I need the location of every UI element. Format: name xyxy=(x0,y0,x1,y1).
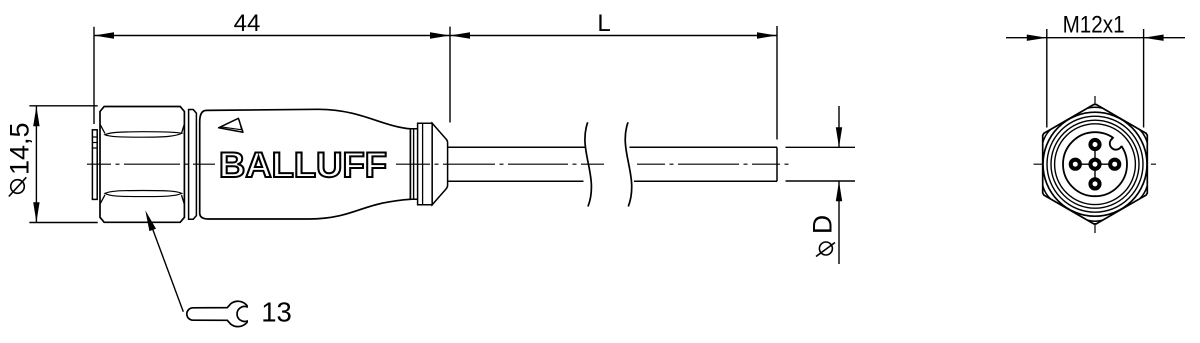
dimension line 44 xyxy=(94,35,450,37)
thread sleeve (front stud) xyxy=(92,130,97,200)
centerline of connector axis (right segment) xyxy=(396,163,604,165)
dimension line L xyxy=(450,35,777,37)
cable break curve 2 xyxy=(625,122,632,206)
dim label dia D (rotated) xyxy=(819,242,832,255)
hex nut side view outline xyxy=(100,107,184,223)
dia 14,5 dimension line xyxy=(35,106,37,222)
dia 14,5 bottom extension line xyxy=(29,222,97,224)
svg-text:BALLUFF: BALLUFF xyxy=(219,146,387,185)
face circle r32 xyxy=(1063,132,1127,196)
thread ticks xyxy=(92,136,97,138)
svg-text:14,5: 14,5 xyxy=(5,122,35,175)
circle r44 xyxy=(1051,120,1139,208)
leader line to wrench xyxy=(150,222,183,312)
extension line left (x=94) xyxy=(93,27,95,124)
hex nut front hexagon xyxy=(1043,105,1148,224)
key notch white fill xyxy=(1110,137,1122,149)
svg-text:D: D xyxy=(808,215,838,234)
body (molded grip) xyxy=(200,109,411,219)
dia 14,5 top extension line xyxy=(29,105,97,107)
circle r40.4 xyxy=(1055,124,1136,205)
cable break curve 1 xyxy=(585,122,592,206)
pin bottom xyxy=(1090,179,1099,188)
pin center xyxy=(1090,160,1099,169)
extension line right (x=777) xyxy=(776,26,778,140)
svg-text:L: L xyxy=(597,10,610,37)
cable top line xyxy=(448,146,777,148)
svg-text:M12x1: M12x1 xyxy=(1063,12,1125,39)
nut front chamfer diagonals xyxy=(100,125,105,134)
face horizontal centerline xyxy=(1034,163,1158,165)
pin top xyxy=(1090,140,1099,149)
M12 extension line left xyxy=(1046,29,1048,128)
dia D bottom extension line xyxy=(786,180,856,182)
cable end xyxy=(776,147,778,181)
strain relief neck outline xyxy=(409,129,418,200)
pin cross vertical xyxy=(1094,140,1096,189)
nut rear chamfer diagonals xyxy=(182,125,185,134)
M12 dimension line xyxy=(1006,37,1185,39)
pin cross horizontal xyxy=(1070,163,1119,165)
hex facet lower lens xyxy=(105,191,182,197)
dia D top extension line xyxy=(786,146,856,148)
cable bottom line xyxy=(448,180,777,182)
strain relief ridge lines xyxy=(413,129,415,200)
face vertical centerline xyxy=(1094,96,1096,233)
M12 extension line right xyxy=(1143,29,1145,128)
svg-text:44: 44 xyxy=(234,10,261,37)
hex facet upper lens xyxy=(105,132,182,138)
pin left xyxy=(1071,160,1080,169)
collar between nut and body xyxy=(189,110,197,220)
svg-text:13: 13 xyxy=(261,296,292,327)
strain relief cone xyxy=(432,123,447,205)
pin right xyxy=(1110,160,1119,169)
thread circle r48 xyxy=(1047,116,1143,212)
chamfer circle r52 xyxy=(1043,112,1147,216)
triangle mark xyxy=(219,118,243,132)
leader arrowhead xyxy=(145,210,156,231)
dim label dia 14,5 (rotated) xyxy=(11,180,25,194)
key notch arc xyxy=(1110,138,1122,150)
wrench icon xyxy=(187,301,247,326)
hexagon corner chamfer arcs xyxy=(1043,107,1148,221)
strain relief collar xyxy=(418,123,433,205)
extension line middle (x=450) xyxy=(449,27,451,123)
centerline of connector axis (left segment) xyxy=(87,163,215,165)
dia D dimension line with outside arrows xyxy=(838,106,840,147)
